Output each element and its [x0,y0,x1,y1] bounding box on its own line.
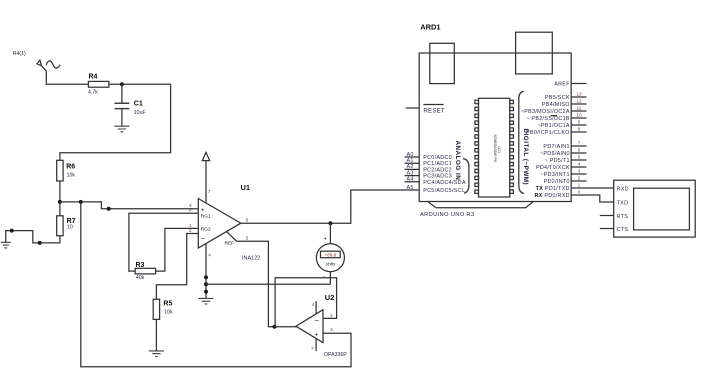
svg-text:10k: 10k [67,173,76,179]
svg-text:3: 3 [578,169,581,175]
svg-text:R5: R5 [163,301,172,308]
svg-text:+: + [315,332,319,339]
SS overline [551,115,558,117]
svg-text:A3: A3 [407,170,414,176]
node C [107,207,111,211]
svg-text:–: – [201,235,205,242]
svg-text:4: 4 [208,252,211,258]
wire R7 bottom zigzag to ground [6,231,60,243]
analog in bracket [463,159,469,194]
svg-text:~ PB2/SS/OC1B: ~ PB2/SS/OC1B [526,116,570,122]
svg-text:U1: U1 [241,183,251,192]
svg-text:R6: R6 [66,164,75,171]
svg-text:R4(1): R4(1) [13,51,26,57]
svg-text:A2: A2 [407,164,414,170]
node pin4 c [204,290,208,294]
svg-text:5: 5 [578,155,581,161]
svg-text:PC2/ADC2: PC2/ADC2 [423,167,452,173]
svg-text:7: 7 [311,346,314,352]
svg-text:10: 10 [576,113,582,119]
svg-text:4: 4 [312,302,315,308]
serial CTS stub [600,228,614,230]
svg-text:TX PD1/TXD: TX PD1/TXD [536,186,570,192]
svg-text:1121: 1121 [497,146,501,153]
node pin4 b [204,282,208,286]
svg-text:RG2: RG2 [201,227,211,233]
wire R3 to U1 pin 1 [156,228,199,271]
svg-text:10uF: 10uF [134,110,146,116]
node A divider [58,200,62,204]
svg-text:8: 8 [578,127,581,133]
arduino ARD1 body [419,53,571,202]
svg-text:11: 11 [577,106,582,112]
svg-text:PD4/T0/XCK: PD4/T0/XCK [536,165,570,171]
svg-text:ANALOG IN: ANALOG IN [454,141,461,181]
ground below R5 [149,351,164,357]
svg-text:6: 6 [246,217,249,223]
svg-text:Volts: Volts [325,262,336,267]
svg-text:4: 4 [578,162,581,168]
svg-text:PC5/ADC5/SCL: PC5/ADC5/SCL [423,188,465,194]
ground below C1 [114,126,129,132]
wire U1 pin 4 down [205,243,207,298]
wire C1 top [121,84,123,103]
svg-text:7: 7 [208,189,211,195]
wire U1 pin 2 loop to R5 [156,234,198,300]
wire U1 pin 8 loop to R3 [129,213,198,271]
svg-text:ARD1: ARD1 [420,22,440,31]
svg-text:A1: A1 [407,158,414,164]
arduino power jack block [430,43,455,83]
svg-text:AREF: AREF [554,82,570,88]
svg-text:7: 7 [578,141,581,147]
resistor R5 [153,299,159,319]
arduino digital stubs [571,97,586,181]
svg-text:RG1: RG1 [201,213,211,219]
atmega chip pins right [510,100,514,193]
digital bracket [519,91,524,193]
ground rail to voltmeter minus [206,283,330,285]
wire C1 bottom [121,109,123,127]
svg-text:RX PD0/RXD: RX PD0/RXD [534,193,569,199]
svg-text:+: + [201,207,205,214]
svg-text:~PD6/AIN0: ~PD6/AIN0 [540,151,570,157]
svg-text:10k: 10k [164,310,173,316]
svg-text:~PD3/INT1: ~PD3/INT1 [540,172,570,178]
node zigzag 1 [10,229,14,233]
generator sine squiggle [46,61,60,68]
svg-text:REF: REF [225,240,235,246]
op-amp U2 OPA336P [296,310,323,343]
wire R5 bottom [155,319,157,351]
svg-text:6: 6 [578,148,581,154]
svg-text:12: 12 [576,99,582,105]
arduino RESET pin [406,107,420,109]
wire voltmeter top stub [329,223,331,244]
node U2 output [273,325,277,329]
resistor R7 [57,216,63,236]
svg-text:RXD: RXD [617,186,629,192]
svg-text:~PB3/MOSI/OC2A: ~PB3/MOSI/OC2A [521,109,570,115]
wire U1 pin 7 [205,161,207,203]
wire U1 output to Arduino A5 [241,190,419,223]
svg-text:4.7k: 4.7k [88,89,98,95]
svg-text:A0: A0 [407,152,414,158]
svg-text:40k: 40k [136,275,145,281]
svg-text:CTS: CTS [617,227,629,233]
wire arduino RX to serial TXD [571,195,614,202]
svg-text:+88.8: +88.8 [325,253,337,258]
svg-text:PD2/INT0: PD2/INT0 [544,179,570,185]
svg-text:PC0/ADC0: PC0/ADC0 [423,155,452,161]
svg-text:-: - [323,273,325,279]
svg-text:PC4/ADC4/SDA: PC4/ADC4/SDA [423,180,466,186]
svg-text:TXD: TXD [617,200,629,206]
node B [79,200,83,204]
svg-text:A5: A5 [407,185,414,191]
node pin4 a [204,275,208,279]
wire REF pin 5 to U2 output node [227,232,296,327]
power arrow above U1 pin 7 [202,152,209,160]
capacitor C1 [115,103,130,108]
svg-text:8: 8 [189,208,192,214]
svg-text:~ PD5/T1: ~ PD5/T1 [544,158,569,164]
resistor R4 [88,81,109,87]
svg-text:PD7/AIN1: PD7/AIN1 [543,144,569,150]
resistor R3 [135,268,155,274]
svg-text:~PB1/OC1A: ~PB1/OC1A [538,123,570,129]
wire R6 to R7 [59,181,61,216]
svg-text:10: 10 [67,225,73,231]
svg-text:2: 2 [189,228,192,234]
node zigzag 2 [38,241,42,245]
svg-text:2: 2 [330,313,333,319]
svg-text:R3: R3 [136,262,145,269]
wire node B down bottom rail up to U2 pin 3 [81,202,351,367]
wire voltmeter bottom stub to ground rail [329,272,331,285]
resistor R6 [57,160,63,181]
svg-text:–: – [315,317,319,324]
wire node A to U1 pin 3 [60,202,198,209]
serial terminal box [614,180,696,237]
svg-text:PC1/ADC1: PC1/ADC1 [423,161,452,167]
svg-text:R4: R4 [89,74,98,81]
svg-text:INA122: INA122 [242,256,260,262]
wire U2 feedback loop [275,278,337,327]
svg-text:RESET: RESET [423,109,445,115]
generator probe terminal triangle [37,60,42,66]
svg-text:RTS: RTS [617,214,629,220]
wire generator to R4 [42,66,89,85]
svg-text:3: 3 [330,327,333,333]
svg-text:ARDUINO UNO R3: ARDUINO UNO R3 [420,212,474,218]
wire U2 pin 4 stub [315,301,317,314]
node R4/C1 [120,82,124,86]
atmega chip pins left [475,100,479,193]
svg-text:PB5/SCK: PB5/SCK [545,95,570,101]
arduino bottom trapezoid [428,202,534,208]
svg-text:PB0/ICP1/CLKO: PB0/ICP1/CLKO [526,130,570,136]
wire arduino TX to serial RXD [571,187,614,189]
wire R4 to corner [109,83,171,85]
voltmeter VM1 [316,244,344,272]
arduino usb block [516,32,553,74]
svg-text:+: + [324,236,327,242]
svg-text:2: 2 [578,176,581,182]
ground left [1,242,11,248]
svg-text:C1: C1 [134,101,143,108]
svg-text:PC3/ADC3: PC3/ADC3 [423,174,452,180]
svg-text:OPA336P: OPA336P [324,352,347,358]
svg-text:ATMEGA328P-PU: ATMEGA328P-PU [493,135,497,163]
wire U2 pin 7 stub [315,339,317,352]
atmega chip body [479,98,510,197]
svg-text:U2: U2 [325,293,335,302]
svg-text:A4: A4 [407,177,414,183]
node output/voltmeter [328,221,332,225]
svg-text:PB4/MISO: PB4/MISO [542,102,570,108]
op-amp U1 INA122 [198,199,241,249]
svg-text:9: 9 [578,120,581,126]
svg-text:DIGITAL (~PWM): DIGITAL (~PWM) [522,129,529,186]
svg-text:13: 13 [576,92,582,98]
ground below U1 pin 4 [199,298,214,304]
wire corner down to R6 [60,84,171,160]
arduino AREF pin [571,83,586,85]
arduino analog stubs A0-A4 [405,157,420,182]
serial RTS stub [600,215,614,217]
